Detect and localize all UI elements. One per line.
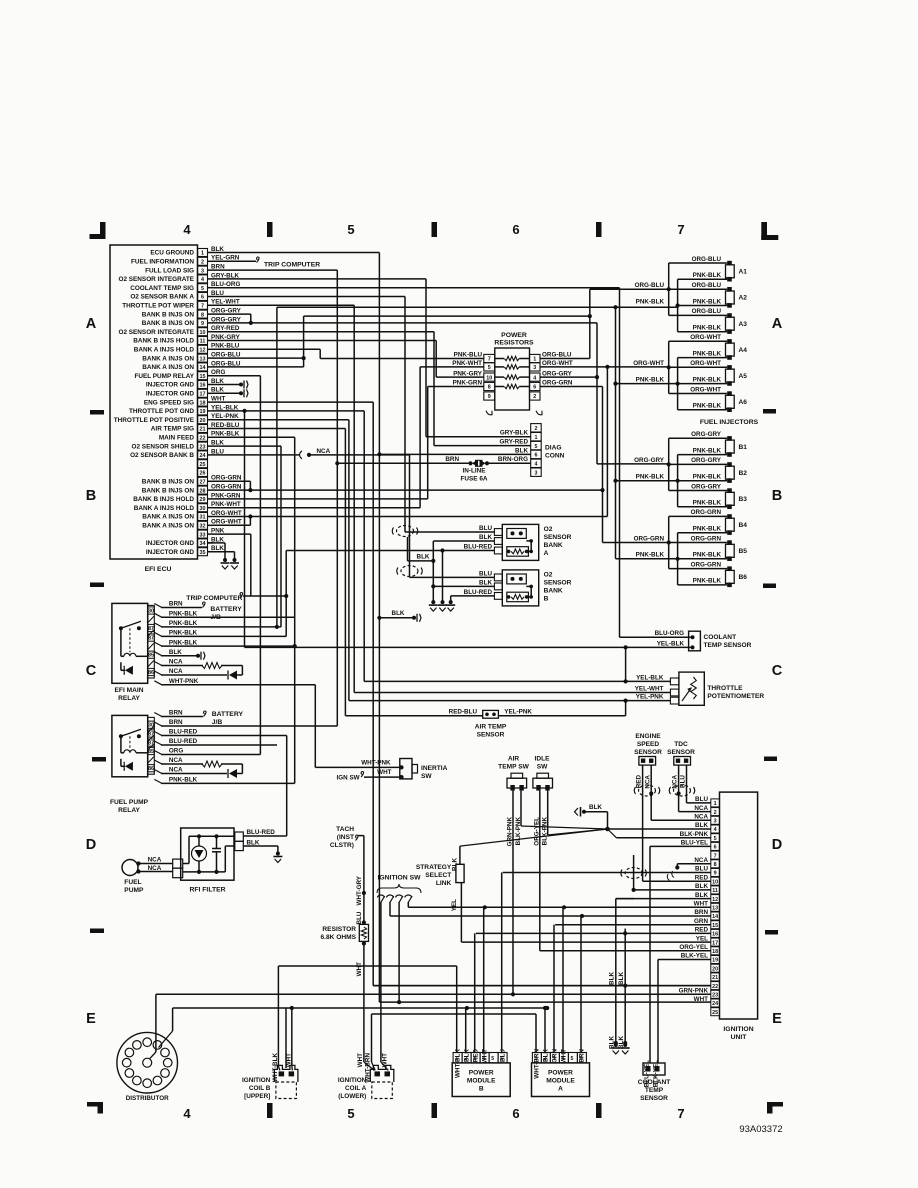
svg-text:FUEL PUMP: FUEL PUMP xyxy=(110,799,149,806)
svg-text:ORG-BLU: ORG-BLU xyxy=(542,352,572,359)
svg-text:BLK: BLK xyxy=(479,534,492,541)
svg-text:18: 18 xyxy=(200,400,206,406)
svg-text:NCA: NCA xyxy=(694,857,708,864)
svg-text:ORG-GRN: ORG-GRN xyxy=(691,509,722,516)
feed labels for group B1-B3 xyxy=(634,457,665,480)
NCA connector on pin24 wire xyxy=(300,448,331,459)
diagnostic connector pin column xyxy=(531,424,542,477)
svg-text:RELAY: RELAY xyxy=(118,695,140,702)
svg-text:13: 13 xyxy=(200,356,206,362)
svg-text:PUMP: PUMP xyxy=(124,887,144,894)
svg-text:22: 22 xyxy=(712,984,718,990)
svg-text:25: 25 xyxy=(712,1010,718,1016)
svg-text:GRN: GRN xyxy=(552,1049,559,1063)
svg-text:5: 5 xyxy=(714,836,717,842)
svg-text:ORG-BLU: ORG-BLU xyxy=(692,256,722,263)
svg-text:PNK-BLK: PNK-BLK xyxy=(693,474,722,481)
svg-text:ORG-BLU: ORG-BLU xyxy=(692,282,722,289)
ign pin9 BLU wire from power module B pin6 xyxy=(503,873,711,881)
star node junction xyxy=(460,812,711,846)
net ORG-WHT from resistor pin3 to injectors A4-A6 xyxy=(540,365,669,517)
svg-text:NCA: NCA xyxy=(169,659,183,666)
svg-text:BANK A INJS ON: BANK A INJS ON xyxy=(142,364,194,371)
in-line fuse label xyxy=(461,468,488,483)
diag conn label xyxy=(545,445,565,460)
fuel pump M1 xyxy=(122,860,141,876)
svg-text:6.8K OHMS: 6.8K OHMS xyxy=(320,934,356,941)
ECU U1 pin boxes and numbers xyxy=(198,249,208,556)
svg-text:J/B: J/B xyxy=(212,719,223,726)
svg-text:WHT-BRN: WHT-BRN xyxy=(365,1053,372,1083)
tach wire WHT below resistor xyxy=(356,944,375,1071)
power module B wire labels xyxy=(454,1049,506,1078)
ignition unit name label xyxy=(723,1026,753,1041)
RFI filter internal wiring xyxy=(183,834,235,874)
throttle potentiometer label xyxy=(707,685,764,700)
wire pin16 BLK connector xyxy=(213,381,248,389)
ign pin19 BLK-YEL wire to coolant sensor (lower) xyxy=(658,960,711,1064)
svg-text:86: 86 xyxy=(148,670,154,676)
svg-text:RED: RED xyxy=(472,1049,479,1063)
svg-text:BRN: BRN xyxy=(169,710,183,717)
svg-text:33: 33 xyxy=(200,532,206,538)
svg-text:A: A xyxy=(558,1086,563,1093)
svg-text:BLK: BLK xyxy=(589,804,602,811)
resistor R1 element xyxy=(495,356,530,360)
K1 BLK wire connector xyxy=(161,652,205,660)
svg-text:2: 2 xyxy=(535,426,538,432)
svg-text:BATTERY: BATTERY xyxy=(212,711,244,718)
svg-text:SENSOR: SENSOR xyxy=(640,1095,668,1102)
svg-text:PNK-BLK: PNK-BLK xyxy=(169,620,198,627)
idle switch xyxy=(533,756,553,791)
O2 sensor bank A labels xyxy=(544,526,572,557)
svg-text:2: 2 xyxy=(533,394,536,400)
fuel injector B3 xyxy=(669,483,748,509)
border letter B left xyxy=(86,488,96,504)
in-line fuse F1 6A xyxy=(468,460,489,467)
border bar left 2 xyxy=(90,583,104,588)
svg-text:BLU: BLU xyxy=(695,866,708,873)
svg-text:TRIP COMPUTER: TRIP COMPUTER xyxy=(186,595,242,602)
svg-text:COIL B: COIL B xyxy=(249,1085,271,1092)
svg-text:POWER: POWER xyxy=(469,1070,494,1077)
svg-text:12: 12 xyxy=(200,348,206,354)
svg-text:24: 24 xyxy=(200,453,206,459)
svg-text:LINK: LINK xyxy=(436,880,452,887)
svg-text:BLU: BLU xyxy=(479,525,492,532)
svg-text:7: 7 xyxy=(201,304,204,310)
svg-text:TACH: TACH xyxy=(336,826,354,833)
svg-text:YEL-BLK: YEL-BLK xyxy=(636,674,664,681)
svg-text:PNK-BLK: PNK-BLK xyxy=(169,639,198,646)
power resistors R1-R4 block title xyxy=(494,332,534,347)
svg-text:B6: B6 xyxy=(739,574,748,581)
svg-text:4: 4 xyxy=(714,827,717,833)
ECU connector U1 (EFI ECU) body xyxy=(110,245,198,559)
net PNK-BLK injector feed from EFI main relay xyxy=(277,305,678,559)
border number 4 bottom xyxy=(183,1106,191,1121)
RFI filter diode D1 xyxy=(192,846,207,861)
svg-text:BANK A INJS HOLD: BANK A INJS HOLD xyxy=(134,505,195,512)
wire pin29 PNK-GRN to power resistors xyxy=(213,387,484,499)
svg-text:TRIP COMPUTER: TRIP COMPUTER xyxy=(264,262,320,269)
module B pin2 BLK wire xyxy=(465,1008,467,1053)
wire pin35 BLK to ground xyxy=(208,552,235,560)
svg-text:INJECTOR GND: INJECTOR GND xyxy=(146,549,195,556)
resistor R4 element xyxy=(495,384,530,388)
wire pin2 YEL-GRN to trip computer xyxy=(213,257,259,263)
svg-text:87: 87 xyxy=(148,636,154,642)
ECU pin stub wires xyxy=(208,253,214,552)
ignition sw wire 1 to coil A xyxy=(381,903,388,1071)
svg-text:BLK-PNK: BLK-PNK xyxy=(542,817,549,846)
power module A name xyxy=(546,1070,575,1093)
svg-text:4: 4 xyxy=(533,375,536,381)
border number 4 top xyxy=(183,222,191,237)
svg-text:POWER: POWER xyxy=(548,1070,573,1077)
svg-text:FUEL INJECTORS: FUEL INJECTORS xyxy=(700,419,759,426)
border number 5 top xyxy=(347,222,354,237)
svg-text:RFI FILTER: RFI FILTER xyxy=(189,887,225,894)
injector group A4-A6 rails xyxy=(667,341,680,410)
svg-text:A5: A5 xyxy=(739,373,748,380)
svg-text:FUEL PUMP RELAY: FUEL PUMP RELAY xyxy=(134,373,194,380)
svg-text:BLK: BLK xyxy=(695,883,708,890)
fuel pump connector blocks xyxy=(173,859,183,878)
ECU U1 signal name labels xyxy=(114,250,195,556)
svg-text:POTENTIOMETER: POTENTIOMETER xyxy=(707,693,764,700)
border letter E right xyxy=(772,1011,782,1027)
svg-text:7: 7 xyxy=(488,357,491,363)
svg-text:RESISTORS: RESISTORS xyxy=(494,340,534,347)
svg-text:ORG-GRN: ORG-GRN xyxy=(634,535,665,542)
wire pin17 BLK connector xyxy=(213,389,248,397)
battery J/B label (main relay) xyxy=(210,606,242,621)
svg-text:21: 21 xyxy=(712,975,718,981)
svg-text:BANK B INJS ON: BANK B INJS ON xyxy=(142,487,195,494)
ground for pin34 xyxy=(221,558,230,569)
ignition sw wire 3 WHT to ignition unit pin24 xyxy=(397,903,401,1005)
wire pin3 BRN xyxy=(213,270,339,726)
K1 PNK-BLK wire 1 xyxy=(161,616,295,618)
svg-text:THROTTLE POT GND: THROTTLE POT GND xyxy=(129,408,194,415)
svg-text:BANK A INJS ON: BANK A INJS ON xyxy=(142,523,194,530)
svg-text:A: A xyxy=(772,316,783,332)
wire pin23 BLK to relay xyxy=(213,446,281,627)
inertia switch label xyxy=(421,765,448,780)
svg-text:PNK-BLK: PNK-BLK xyxy=(693,403,722,410)
svg-text:ORG-GRN: ORG-GRN xyxy=(542,380,573,387)
svg-text:1: 1 xyxy=(714,801,717,807)
svg-text:9: 9 xyxy=(714,871,717,877)
K1 NCA resistor loop xyxy=(161,663,242,676)
fuel injector B2 xyxy=(669,457,748,483)
K2 BLU-RED wire 2 xyxy=(161,744,277,746)
fuel pump label xyxy=(124,879,144,894)
svg-text:PNK-BLK: PNK-BLK xyxy=(693,526,722,533)
svg-text:PNK-BLK: PNK-BLK xyxy=(169,611,198,618)
svg-text:BANK A INJS HOLD: BANK A INJS HOLD xyxy=(134,347,195,354)
svg-text:PNK-BLK: PNK-BLK xyxy=(636,552,665,559)
svg-text:14: 14 xyxy=(712,914,718,920)
svg-text:FUSE 6A: FUSE 6A xyxy=(461,476,488,483)
border tick bottom 1 xyxy=(267,1103,273,1118)
border letter C left xyxy=(86,663,97,679)
inertia switch S1 xyxy=(400,759,418,779)
svg-text:AIR: AIR xyxy=(508,756,520,763)
svg-text:GRY-BLK: GRY-BLK xyxy=(500,430,529,437)
svg-text:NCA: NCA xyxy=(694,805,708,812)
svg-text:THROTTLE POT POSITIVE: THROTTLE POT POSITIVE xyxy=(114,417,195,424)
svg-text:BLU: BLU xyxy=(499,1049,506,1062)
svg-text:O2 SENSOR INTEGRATE: O2 SENSOR INTEGRATE xyxy=(118,276,194,283)
fuel injector A2 xyxy=(669,282,748,308)
svg-text:BLU-RED: BLU-RED xyxy=(464,544,493,551)
svg-text:2: 2 xyxy=(201,260,204,266)
svg-text:15: 15 xyxy=(712,923,718,929)
svg-text:8: 8 xyxy=(488,385,491,391)
svg-text:2: 2 xyxy=(714,810,717,816)
svg-text:AIR TEMP: AIR TEMP xyxy=(475,724,507,731)
throttle pot wire labels xyxy=(635,674,664,700)
junction dots misc xyxy=(465,1006,550,1010)
svg-text:GRN: GRN xyxy=(694,918,708,925)
svg-text:TEMP: TEMP xyxy=(645,1087,664,1094)
svg-text:32: 32 xyxy=(200,524,206,530)
svg-text:WHT-BLK: WHT-BLK xyxy=(454,1049,461,1078)
ignition switch contacts xyxy=(378,895,413,903)
svg-text:1: 1 xyxy=(533,357,536,363)
svg-text:24: 24 xyxy=(712,1001,718,1007)
svg-text:A1: A1 xyxy=(739,269,748,276)
svg-text:SENSOR: SENSOR xyxy=(544,580,572,587)
svg-text:FULL LOAD SIG: FULL LOAD SIG xyxy=(145,267,194,274)
power resistors body xyxy=(495,348,530,410)
svg-text:WHT: WHT xyxy=(694,996,708,1003)
svg-text:D: D xyxy=(772,837,782,853)
svg-text:BRN: BRN xyxy=(169,719,183,726)
svg-text:6: 6 xyxy=(512,222,519,237)
border corner bottom-right xyxy=(767,1102,783,1114)
svg-text:PNK-BLK: PNK-BLK xyxy=(693,272,722,279)
svg-text:BANK A INJS ON: BANK A INJS ON xyxy=(142,355,194,362)
svg-text:3: 3 xyxy=(201,268,204,274)
ign pin10 RED wire from engine speed sensor xyxy=(643,880,711,882)
power resistors right pin column xyxy=(530,354,543,414)
svg-text:9: 9 xyxy=(201,321,204,327)
wire pin20 YEL-PNK xyxy=(213,420,670,703)
svg-text:WHT: WHT xyxy=(357,1053,364,1067)
svg-text:22: 22 xyxy=(200,436,206,442)
svg-text:THROTTLE: THROTTLE xyxy=(707,685,743,692)
coil A wire labels xyxy=(357,1053,389,1083)
tach (inst clstr) label xyxy=(330,826,358,849)
svg-text:THROTTLE POT WIPER: THROTTLE POT WIPER xyxy=(122,303,194,310)
svg-text:BLK: BLK xyxy=(169,649,182,656)
module A pin2 BLK wire xyxy=(543,1006,547,1053)
svg-text:WHT: WHT xyxy=(481,1049,488,1063)
svg-text:ORG-GRY: ORG-GRY xyxy=(542,370,573,377)
border corner top-left xyxy=(90,222,106,239)
coolant temp sensor (mid) xyxy=(689,631,701,651)
resistor R3 element xyxy=(495,375,530,379)
module A pin3 GRN wire xyxy=(553,925,555,1053)
svg-text:93A03372: 93A03372 xyxy=(739,1124,782,1135)
ignition sw wire 2 BRN net xyxy=(390,903,711,919)
module B pin4 WHT wire xyxy=(483,907,485,1052)
svg-text:B3: B3 xyxy=(739,496,748,503)
coolant temp sensor (lower) labels xyxy=(638,1060,671,1102)
svg-text:28: 28 xyxy=(200,488,206,494)
svg-text:WHT: WHT xyxy=(694,901,708,908)
svg-text:RED-BLU: RED-BLU xyxy=(449,709,478,716)
svg-text:O2 SENSOR BANK A: O2 SENSOR BANK A xyxy=(130,294,194,301)
svg-text:O2 SENSOR BANK B: O2 SENSOR BANK B xyxy=(130,452,194,459)
RFI ground xyxy=(273,852,282,863)
svg-text:BLU-RED: BLU-RED xyxy=(247,829,276,836)
shield loop on O2 bank A lead xyxy=(392,526,418,537)
svg-text:PNK-BLK: PNK-BLK xyxy=(693,447,722,454)
svg-text:25: 25 xyxy=(200,462,206,468)
distributor xyxy=(117,1032,178,1093)
net ORG-GRY from resistor pin4 to injectors B1-B3 xyxy=(540,377,669,464)
svg-text:31: 31 xyxy=(200,515,206,521)
svg-text:TEMP SENSOR: TEMP SENSOR xyxy=(704,642,752,649)
wire pins27/28 ORG-GRN xyxy=(213,481,605,492)
svg-text:6: 6 xyxy=(201,295,204,301)
svg-text:RED: RED xyxy=(695,927,709,934)
wire pin34 BLK to ground xyxy=(208,543,226,560)
fuel pump relay name label xyxy=(110,799,149,814)
svg-text:30: 30 xyxy=(148,609,154,615)
svg-text:WHT: WHT xyxy=(356,962,363,976)
svg-text:[UPPER]: [UPPER] xyxy=(244,1093,270,1100)
svg-text:E: E xyxy=(86,1011,96,1027)
svg-text:30: 30 xyxy=(148,723,154,729)
engine speed sensor wires xyxy=(636,765,711,881)
ign pin11 BLK wire xyxy=(621,855,711,892)
coil B WHT wire xyxy=(285,1006,294,1071)
svg-text:IGNITION: IGNITION xyxy=(242,1077,271,1084)
svg-text:30: 30 xyxy=(200,506,206,512)
svg-text:DISTRIBUTOR: DISTRIBUTOR xyxy=(126,1095,169,1102)
svg-text:NCA: NCA xyxy=(169,757,183,764)
svg-text:PNK-BLK: PNK-BLK xyxy=(636,474,665,481)
svg-text:NCA: NCA xyxy=(672,775,679,789)
svg-text:ORG-GRY: ORG-GRY xyxy=(691,457,722,464)
feed labels for group A1-A3 xyxy=(635,282,665,305)
svg-text:SENSOR: SENSOR xyxy=(667,749,695,756)
svg-text:NCA: NCA xyxy=(644,775,651,789)
wire pin19 YEL-BLK xyxy=(213,411,670,684)
wire pins13/14 ORG-BLU xyxy=(213,314,592,367)
svg-text:BLK: BLK xyxy=(452,858,459,871)
svg-text:BLU-ORG: BLU-ORG xyxy=(655,630,684,637)
svg-text:COOLANT: COOLANT xyxy=(704,634,737,641)
svg-text:A4: A4 xyxy=(739,347,748,354)
trip computer label (top) xyxy=(264,262,320,269)
ignition unit U2 body xyxy=(720,792,758,1019)
border tick top 3 xyxy=(596,222,602,237)
svg-text:4: 4 xyxy=(201,277,204,283)
svg-text:4: 4 xyxy=(183,1106,191,1121)
module B pin1 WHT-BLK wire from coil B xyxy=(278,966,456,1053)
feed labels for group A4-A6 xyxy=(633,360,664,383)
injector group B1-B3 rails xyxy=(667,438,680,507)
svg-text:B2: B2 xyxy=(739,470,748,477)
border letter D right xyxy=(772,837,782,853)
K2 ORG wire xyxy=(161,754,260,756)
K2 body xyxy=(112,715,148,776)
fuel injector B4 xyxy=(669,509,748,535)
diag BLK wire from pin1 BLK vertical xyxy=(377,452,530,456)
svg-text:RED: RED xyxy=(695,874,709,881)
svg-text:(LOWER): (LOWER) xyxy=(338,1093,366,1100)
fuel injector A4 xyxy=(669,334,748,360)
svg-text:5: 5 xyxy=(201,286,204,292)
svg-text:IN-LINE: IN-LINE xyxy=(462,468,486,475)
wire pin1 BLK xyxy=(213,253,711,1003)
svg-text:23: 23 xyxy=(200,444,206,450)
svg-text:ORG: ORG xyxy=(169,748,183,755)
svg-text:O2 SENSOR SHIELD: O2 SENSOR SHIELD xyxy=(132,443,195,450)
TDC sensor wires xyxy=(672,765,711,812)
svg-text:6: 6 xyxy=(535,453,538,459)
svg-text:PNK-BLK: PNK-BLK xyxy=(693,325,722,332)
svg-text:ORG-WHT: ORG-WHT xyxy=(690,386,721,393)
svg-text:17: 17 xyxy=(712,940,718,946)
ignition unit pin boxes xyxy=(711,799,720,1016)
wire BRN-ORG diag pin4 with in-line fuse xyxy=(337,462,530,464)
wire pin4 GRY-BLK to diag xyxy=(213,279,531,437)
svg-text:6: 6 xyxy=(714,845,717,851)
svg-text:YEL-PNK: YEL-PNK xyxy=(504,709,532,716)
O2 sensor bank B labels xyxy=(544,572,572,603)
BRN label at fuse xyxy=(445,456,459,463)
svg-text:BANK: BANK xyxy=(544,588,563,595)
svg-text:IGNITION: IGNITION xyxy=(338,1077,367,1084)
svg-text:12: 12 xyxy=(712,897,718,903)
svg-text:8: 8 xyxy=(714,862,717,868)
svg-text:BANK B INJS HOLD: BANK B INJS HOLD xyxy=(133,338,194,345)
svg-text:PNK-BLK: PNK-BLK xyxy=(636,298,665,305)
air temp sensor label xyxy=(475,724,507,739)
svg-text:5: 5 xyxy=(491,1056,494,1062)
svg-text:CONN: CONN xyxy=(545,453,565,460)
svg-text:TEMP SW: TEMP SW xyxy=(498,764,529,771)
svg-text:5: 5 xyxy=(347,1106,354,1121)
svg-text:18: 18 xyxy=(712,949,718,955)
svg-text:11: 11 xyxy=(712,888,718,894)
K1 PNK-BLK wire 3 xyxy=(161,551,288,637)
svg-text:NCA: NCA xyxy=(148,865,162,872)
svg-text:85: 85 xyxy=(148,749,154,755)
module A pin6 BRN wire xyxy=(580,916,582,1053)
svg-text:4: 4 xyxy=(535,462,538,468)
border letter B right xyxy=(772,488,782,504)
svg-text:16: 16 xyxy=(200,383,206,389)
svg-text:WHT-PNK: WHT-PNK xyxy=(361,760,391,767)
strategy link BLK wire xyxy=(452,846,460,871)
tach wire WHT-GRY down to coil A xyxy=(356,836,366,925)
svg-text:BRN-ORG: BRN-ORG xyxy=(498,456,528,463)
svg-text:BANK B INJS ON: BANK B INJS ON xyxy=(142,311,195,318)
svg-text:BLK: BLK xyxy=(463,1049,470,1062)
svg-text:10: 10 xyxy=(200,330,206,336)
svg-text:1: 1 xyxy=(201,251,204,257)
fuel injector A3 xyxy=(669,308,748,334)
